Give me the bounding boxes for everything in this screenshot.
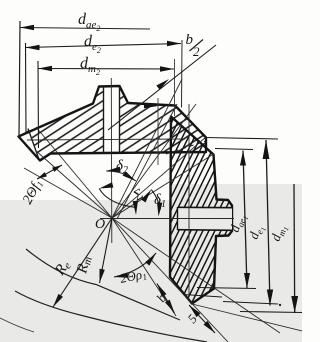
pinion lower root line from O extended (112, 218, 228, 342)
Re leader line (53, 218, 112, 307)
hidden dashed edge in mesh (166, 141, 206, 154)
extension line d_ae1 bottom (197, 288, 256, 289)
gear 2 tooth inner edge (28, 129, 39, 159)
vertical construction line in mesh (157, 98, 159, 165)
extension line for d_m2 (37, 61, 40, 148)
dimension line d_ae1 (243, 151, 247, 289)
faint arc fragment bottom left (0, 318, 34, 332)
svg-text:O: O (95, 217, 105, 232)
arc for outer cone distance Re (15, 291, 207, 342)
extension line for d_ae2 (19, 21, 20, 137)
dimension line d_e1 (266, 140, 270, 306)
gear 2 root cone line up-right (112, 104, 196, 218)
pinion bore (178, 208, 233, 230)
dimension line d_e2 (26, 44, 182, 48)
cone distance line from O down-right (112, 218, 176, 316)
face cone line from O to gear 2 right corner (112, 137, 206, 218)
pinion outline (170, 117, 232, 304)
2-theta-P1 angle arc (114, 253, 156, 277)
pinion pitch line from O to pinion upper tip (112, 154, 214, 218)
Rm leader line (100, 218, 113, 283)
extension line d_ae1 top (215, 149, 253, 150)
dimension line d_m1 (293, 184, 296, 313)
gear 2 root cone line up-left lower (24, 168, 112, 218)
gear 2 internal pitch line (27, 139, 185, 140)
centerline pinion (horizontal axis) (100, 218, 234, 220)
pinion internal vertical line (188, 104, 190, 297)
reference dot (279, 304, 281, 306)
gear 2 hatched body (19, 86, 207, 161)
svg-text:2: 2 (193, 44, 200, 59)
small 5 dimension (189, 305, 215, 333)
2-theta-f dimension (37, 165, 62, 179)
gear 2 cone line up-left middle (35, 150, 112, 218)
gear 2 outline (19, 86, 207, 161)
delta2 angle arc (106, 171, 136, 181)
gray photo region right (171, 184, 302, 201)
pinion gear 1 hatched body (170, 117, 232, 304)
gear 2 bore (103, 87, 105, 153)
extension line d_m1 bottom (240, 312, 302, 313)
dimension line d_ae2 (20, 28, 150, 30)
b face width dimension (157, 284, 175, 314)
extension line for d_e2 (25, 43, 28, 133)
Sigma angle arc (99, 189, 136, 208)
arc for mean cone distance Rm (26, 249, 180, 320)
dimension line d_m2 (38, 68, 174, 71)
centerline gear 2 (vertical axis) (110, 78, 113, 243)
extension line d_e1 bottom (223, 302, 278, 305)
Rm arrowhead (97, 269, 105, 284)
b/2 diagonal leader (108, 45, 216, 130)
extension line d_m2 right tick (174, 59, 176, 116)
gray photo region lower (0, 200, 302, 342)
gear 2 cone line up-left steep (36, 127, 112, 218)
shallow extension line bottom right (192, 304, 302, 331)
Re arrowhead (51, 294, 63, 309)
pinion lower pitch line from O extended (112, 218, 280, 333)
twin pitch line in mesh (117, 104, 177, 219)
extension line d_e1 top (206, 138, 278, 140)
delta1 angle arc (151, 190, 160, 210)
pitch cone generator line from O extended up-right (112, 79, 182, 218)
short extension line at pinion bottom (183, 295, 222, 298)
extension line d_e2 right tick / b2 reference (181, 40, 184, 108)
